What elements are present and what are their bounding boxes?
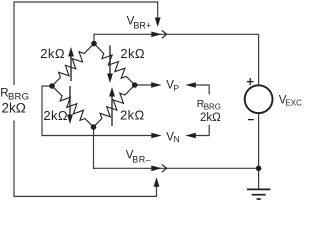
connector arrow on VBR- rail	[151, 166, 162, 172]
connector arrow on VBR+ rail	[151, 32, 162, 38]
arrow VP out	[151, 82, 162, 88]
plus sign	[247, 78, 254, 85]
arrow VN out	[151, 133, 162, 139]
minus sign	[248, 119, 254, 121]
svg-text:EXC: EXC	[285, 98, 302, 107]
svg-text:2kΩ: 2kΩ	[120, 108, 145, 123]
svg-text:N: N	[174, 134, 180, 144]
resistor R2 (top-right arm)	[94, 44, 135, 86]
wire VN run	[42, 86, 152, 136]
node node VBR+ (bridge top)	[91, 41, 97, 47]
svg-text:BR–: BR–	[132, 154, 151, 164]
arrow VP bracket (left)	[185, 82, 196, 88]
arrow R3 variable (down)	[69, 86, 71, 117]
wire left sense lead (top loop to VBR+)	[14, 2, 158, 85]
svg-text:2kΩ: 2kΩ	[120, 46, 145, 61]
svg-text:2kΩ: 2kΩ	[40, 46, 65, 61]
svg-text:2kΩ: 2kΩ	[2, 101, 26, 116]
resistor R4 (bottom-right arm)	[94, 85, 135, 127]
node node VBR- (bridge bottom)	[91, 124, 97, 130]
svg-text:BR+: BR+	[133, 21, 151, 31]
svg-text:BRG: BRG	[204, 102, 221, 111]
arrow R2 variable (down)	[109, 46, 111, 77]
svg-text:P: P	[173, 83, 179, 93]
wire VP run	[135, 84, 152, 86]
resistor R1 (top-left arm)	[52, 44, 94, 87]
arrow into VBR- rail (from sense loop)	[154, 177, 160, 187]
wire VN bracket	[196, 126, 210, 136]
svg-text:2kΩ: 2kΩ	[200, 112, 221, 124]
arrow VN bracket (left)	[185, 133, 196, 139]
svg-text:2kΩ: 2kΩ	[43, 108, 68, 123]
wire bottom node stub	[93, 127, 95, 168]
resistor R3 (bottom-left arm)	[52, 86, 94, 127]
ground	[247, 189, 271, 199]
wire VBR+ rail	[94, 34, 259, 85]
arrow into VBR+ rail (from sense loop)	[155, 18, 161, 28]
wire VP bracket	[196, 85, 210, 94]
wire top node stub	[93, 34, 95, 43]
wire left sense lead (lower segment)	[13, 121, 15, 196]
wire VBR- rail	[94, 167, 259, 169]
node node VP/right	[132, 82, 138, 88]
voltage source VEXC	[245, 85, 273, 113]
node node VN/left	[49, 83, 55, 89]
arrow R4 variable (up)	[111, 94, 113, 126]
wire bottom-left	[14, 187, 157, 196]
node junction VBR- to source	[256, 166, 262, 172]
wire source to ground	[258, 114, 260, 190]
arrow R1 variable (up)	[70, 54, 72, 81]
